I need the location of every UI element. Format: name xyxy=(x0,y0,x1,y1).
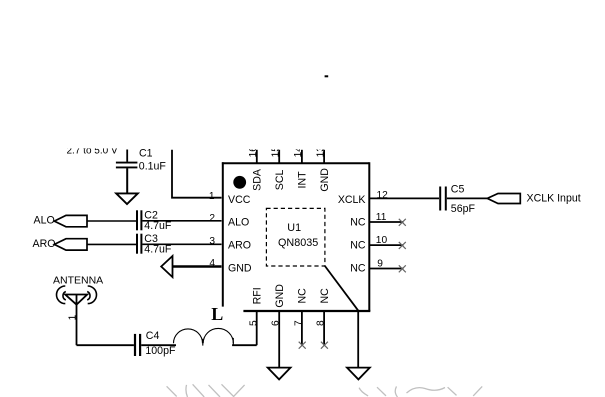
pin number 15 (clipped) xyxy=(270,146,281,158)
pin stub 13 xyxy=(323,150,325,164)
no-connect X pin 9 xyxy=(399,265,406,272)
svg-text:ALO: ALO xyxy=(34,215,55,227)
pin stub 14 xyxy=(301,150,303,164)
wire pin 9 NC xyxy=(369,268,403,270)
pin stub 6 (GND) xyxy=(278,311,280,368)
svg-text:ANTENNA: ANTENNA xyxy=(53,275,103,287)
pin number 13 (clipped) xyxy=(315,146,326,158)
svg-text:NC: NC xyxy=(350,217,366,229)
pin stub 8 (NC) xyxy=(323,311,325,346)
svg-text:100pF: 100pF xyxy=(145,345,176,357)
svg-text:NC: NC xyxy=(350,263,366,275)
svg-text:ARO: ARO xyxy=(33,238,56,250)
svg-text:L: L xyxy=(211,304,223,324)
pin 1 dot xyxy=(233,176,246,189)
svg-text:NC: NC xyxy=(319,288,331,304)
inductor L xyxy=(174,328,234,345)
svg-text:INT: INT xyxy=(297,171,309,189)
svg-text:GND: GND xyxy=(319,168,331,192)
wire pin 11 NC xyxy=(369,221,403,223)
wire pin 4 xyxy=(173,265,222,268)
svg-text:NC: NC xyxy=(297,288,309,304)
capacitor C1 xyxy=(116,163,137,168)
svg-text:0.1uF: 0.1uF xyxy=(139,161,167,173)
svg-text:3: 3 xyxy=(209,236,215,247)
stray dash mark xyxy=(325,75,329,77)
wire C1 to ground xyxy=(126,168,128,193)
net label 2.7 to 5.0 V (clipped) xyxy=(67,145,118,156)
wire C3 to pin 3 xyxy=(142,243,221,245)
svg-text:7: 7 xyxy=(293,320,304,326)
svg-text:9: 9 xyxy=(377,259,383,270)
wire C5 to XCLK connector xyxy=(447,197,487,199)
ground pin 6 xyxy=(268,368,291,380)
svg-text:12: 12 xyxy=(377,190,389,201)
wire pin 12 to C5 xyxy=(369,197,439,199)
watermark fragments xyxy=(167,384,483,397)
wire VCC to pin 1 xyxy=(172,150,222,198)
svg-text:C4: C4 xyxy=(146,330,160,342)
svg-text:SCL: SCL xyxy=(274,169,286,190)
pin number 14 (clipped) xyxy=(293,146,304,158)
no-connect X pin 8 xyxy=(321,342,328,349)
wire ALO to C2 xyxy=(87,220,136,222)
ground thermal pad xyxy=(347,368,370,380)
thermal pad diagonal xyxy=(325,266,358,311)
ground arrow pin 4 xyxy=(161,256,172,277)
no-connect X pin 11 xyxy=(399,219,406,226)
wire ARO to C3 xyxy=(87,243,136,245)
capacitor C4 xyxy=(135,334,140,356)
pin stub 15 xyxy=(278,150,280,164)
svg-text:QN8035: QN8035 xyxy=(278,237,318,249)
pin stub 16 xyxy=(256,150,258,164)
svg-text:GND: GND xyxy=(274,284,286,308)
svg-text:10: 10 xyxy=(376,235,388,246)
ground xyxy=(116,193,138,204)
wire VCC supply to C1 xyxy=(126,150,128,162)
wire L to pin 5 xyxy=(232,344,257,346)
svg-text:XCLK: XCLK xyxy=(338,194,366,206)
capacitor C2 xyxy=(137,210,141,230)
pin number 16 (clipped) xyxy=(248,146,259,158)
svg-text:56pF: 56pF xyxy=(451,203,476,215)
svg-text:11: 11 xyxy=(376,212,387,223)
wire pin 10 NC xyxy=(369,244,403,246)
svg-text:ALO: ALO xyxy=(228,217,249,229)
svg-text:GND: GND xyxy=(228,263,252,275)
svg-text:5: 5 xyxy=(248,320,259,326)
svg-text:VCC: VCC xyxy=(228,194,251,206)
op-amp U1 QN8035 chip body xyxy=(222,163,370,312)
no-connect X pin 10 xyxy=(399,242,406,249)
wire thermal pad to ground xyxy=(357,311,359,368)
antenna xyxy=(57,286,97,345)
pin stub 7 (NC) xyxy=(301,311,303,346)
svg-text:NC: NC xyxy=(350,240,366,252)
svg-text:4.7uF: 4.7uF xyxy=(144,220,172,232)
svg-text:4: 4 xyxy=(209,258,215,269)
connector XCLK Input xyxy=(487,194,520,204)
wire C2 to pin 2 xyxy=(142,220,221,222)
svg-text:ARO: ARO xyxy=(228,240,251,252)
svg-text:6: 6 xyxy=(271,320,282,326)
svg-text:2: 2 xyxy=(209,213,215,224)
svg-text:4.7uF: 4.7uF xyxy=(144,244,172,256)
pin stub 5 (RFI) xyxy=(256,311,258,346)
svg-text:1: 1 xyxy=(67,314,78,320)
U1 internal dashed box xyxy=(266,208,325,266)
capacitor C3 xyxy=(137,234,141,254)
svg-text:1: 1 xyxy=(209,191,215,202)
svg-text:C1: C1 xyxy=(139,147,153,159)
svg-text:C5: C5 xyxy=(451,184,465,196)
wire C4 to L xyxy=(141,344,176,346)
svg-text:8: 8 xyxy=(316,320,327,326)
no-connect X pin 7 xyxy=(299,342,306,349)
svg-text:U1: U1 xyxy=(287,222,301,234)
svg-text:RFI: RFI xyxy=(252,287,264,304)
capacitor C5 xyxy=(440,187,446,211)
wire antenna to C4 xyxy=(77,344,134,346)
svg-text:XCLK Input: XCLK Input xyxy=(527,192,581,204)
svg-text:SDA: SDA xyxy=(252,168,264,191)
